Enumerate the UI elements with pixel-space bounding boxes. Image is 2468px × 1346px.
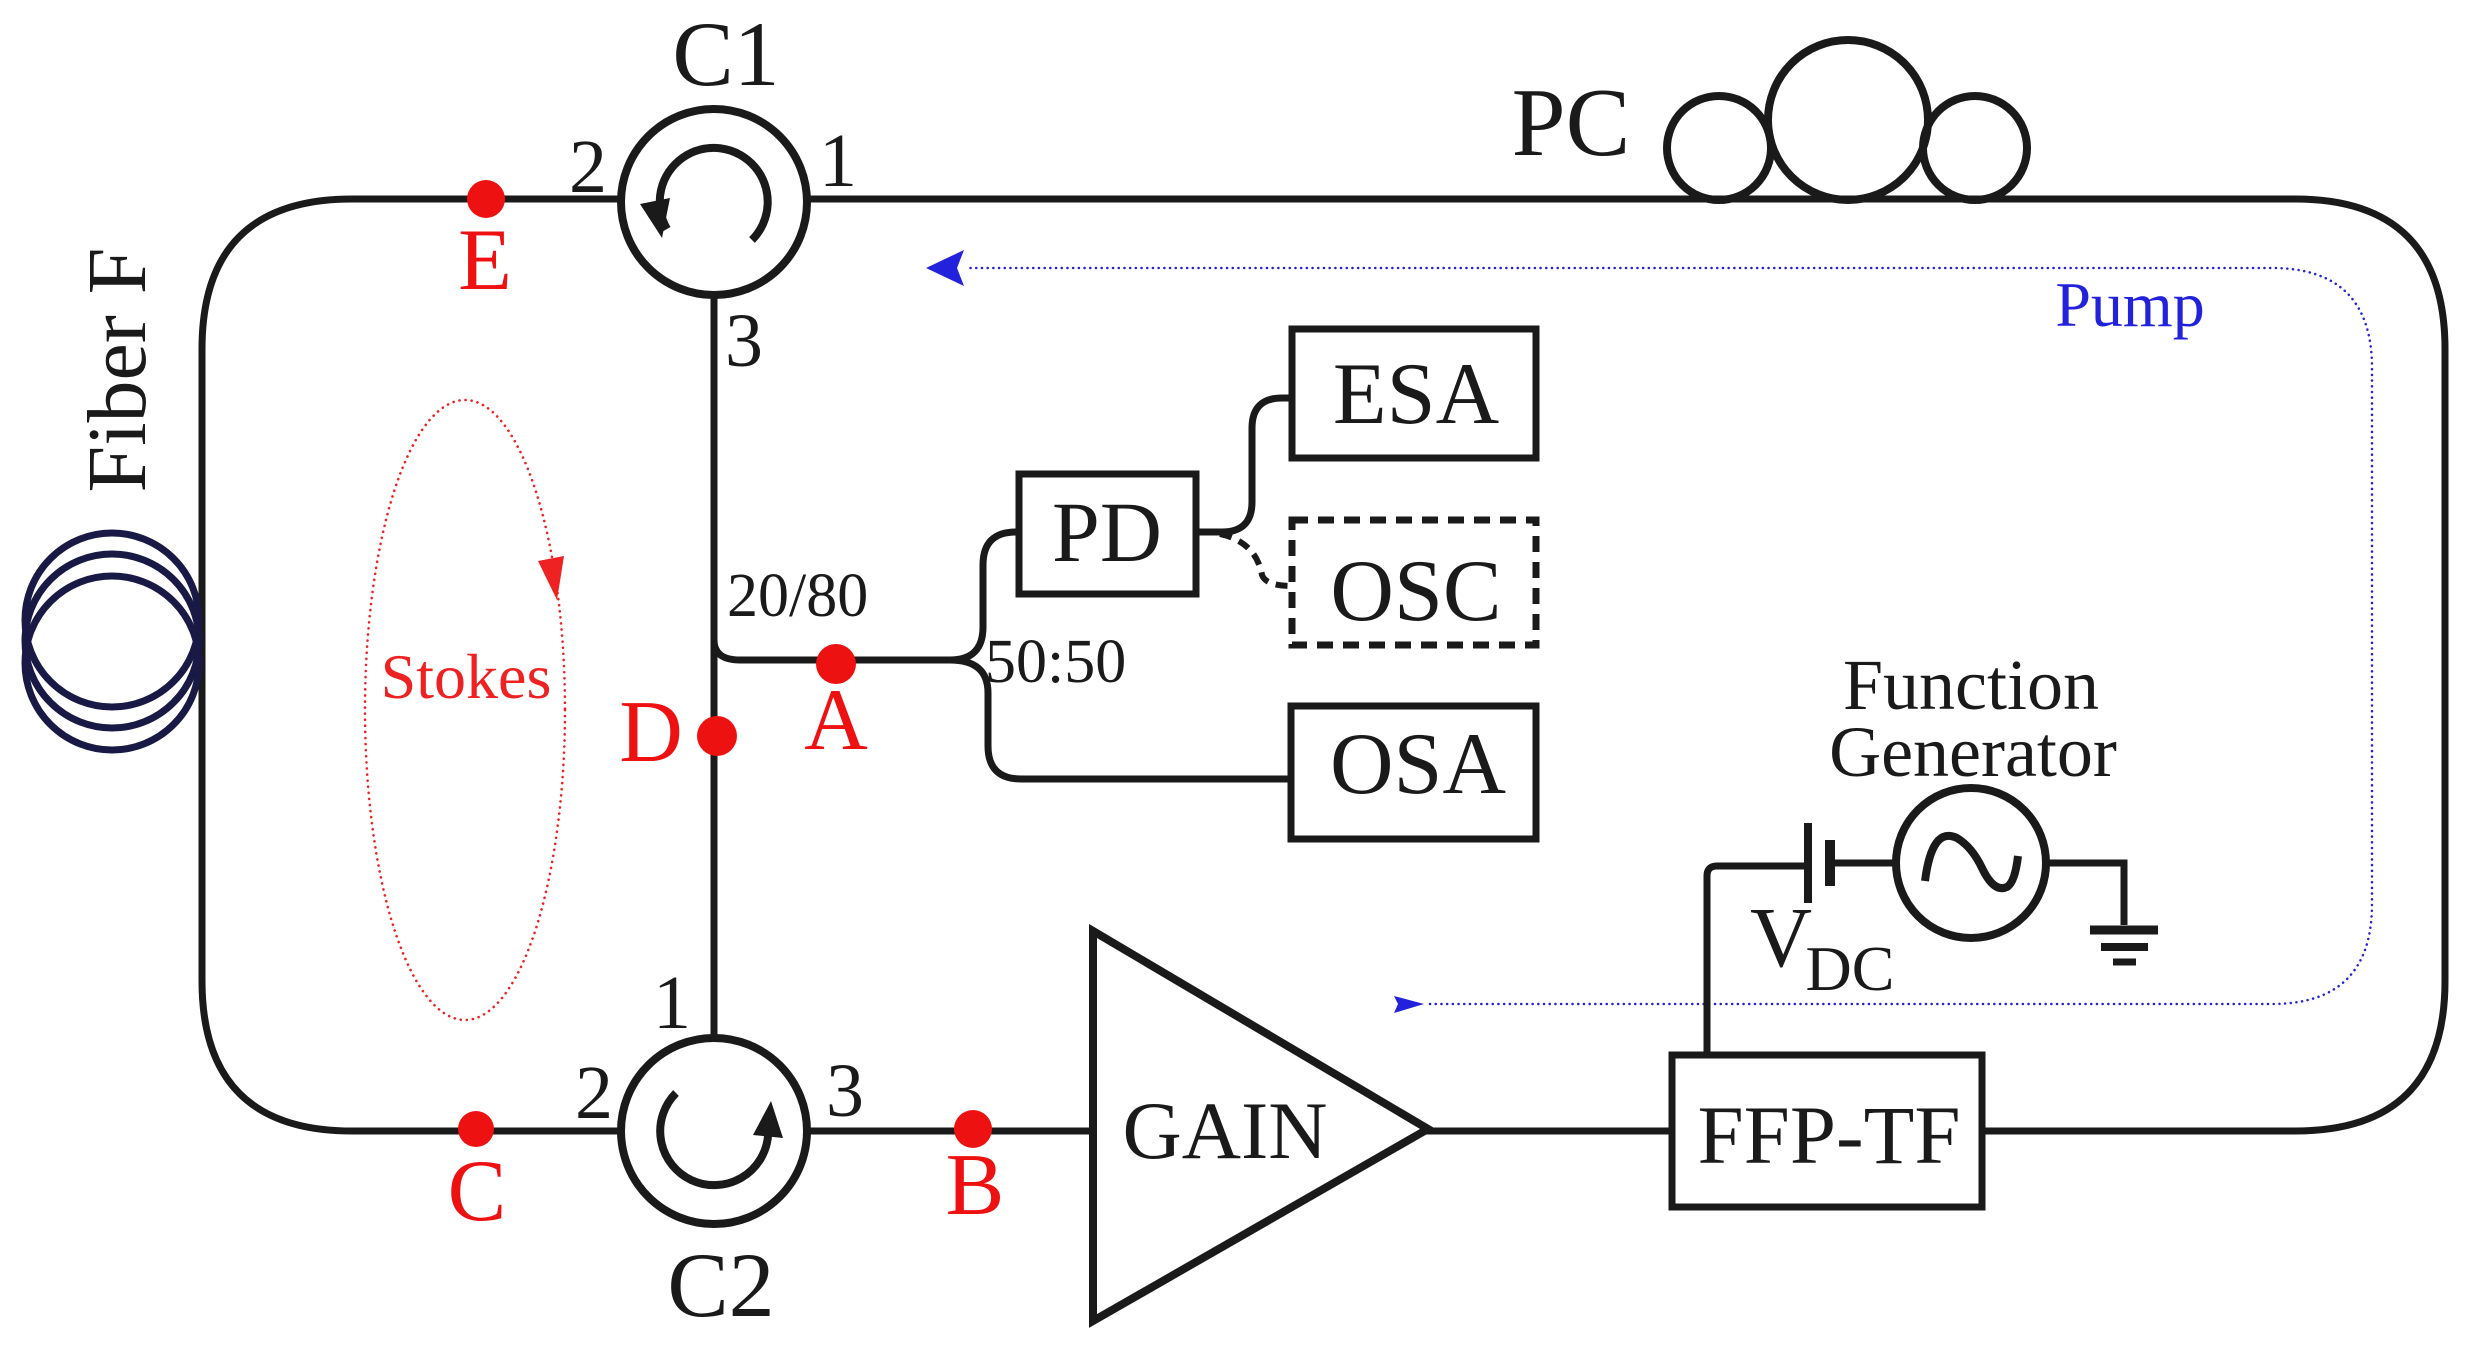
circulator C2	[621, 1038, 807, 1224]
Stokes dotted ellipse	[365, 400, 565, 1020]
svg-text:D: D	[619, 684, 683, 781]
svg-text:C2: C2	[667, 1234, 774, 1336]
polarization controller PC loops	[1667, 40, 2027, 200]
wire battery to generator	[1834, 860, 1896, 867]
svg-text:2: 2	[575, 1051, 613, 1135]
node A dot	[816, 644, 856, 684]
svg-text:1: 1	[653, 961, 691, 1045]
svg-text:OSC: OSC	[1330, 543, 1501, 640]
svg-text:V: V	[1750, 889, 1812, 985]
fiber coil (Fiber F)	[25, 533, 199, 750]
node E dot	[467, 180, 505, 218]
wire C1 port3 to C2 port1	[711, 202, 718, 1131]
circulator C1	[621, 109, 807, 295]
pump dashed path (blue)	[926, 250, 2372, 1013]
coupler 20/80 branch wire	[714, 640, 950, 660]
node C dot	[458, 1111, 494, 1147]
photodetector PD box	[1019, 474, 1196, 594]
pump arrow left (top)	[926, 250, 964, 286]
svg-text:OSA: OSA	[1330, 716, 1506, 813]
wire generator to ground	[2046, 863, 2124, 925]
svg-text:PD: PD	[1052, 484, 1162, 580]
wire PD to fork	[1196, 529, 1222, 536]
function generator wires	[1707, 866, 1804, 1055]
svg-text:B: B	[946, 1137, 1005, 1234]
svg-text:Stokes: Stokes	[381, 641, 552, 712]
svg-text:3: 3	[725, 299, 763, 383]
svg-text:Fiber F: Fiber F	[71, 247, 164, 492]
battery VDC long plate	[1804, 823, 1812, 903]
svg-text:GAIN: GAIN	[1123, 1085, 1328, 1176]
FFP-TF box	[1672, 1055, 1982, 1207]
amplifier GAIN triangle	[1093, 931, 1428, 1321]
svg-text:Generator: Generator	[1829, 712, 2117, 792]
node D dot	[697, 716, 737, 756]
svg-text:ESA: ESA	[1333, 346, 1499, 443]
splitter 50:50 fork upper branch to PD	[950, 532, 1019, 660]
svg-text:DC: DC	[1806, 933, 1895, 1004]
svg-text:C1: C1	[672, 3, 779, 105]
pump arrow right (bottom)	[1394, 996, 1424, 1013]
svg-text:3: 3	[826, 1049, 864, 1133]
svg-text:PC: PC	[1512, 69, 1631, 176]
svg-text:Pump: Pump	[2055, 269, 2204, 340]
splitter 50:50 fork lower branch to OSA	[950, 660, 1291, 779]
svg-text:A: A	[804, 672, 868, 769]
sine source circle	[1896, 788, 2046, 938]
svg-text:1: 1	[819, 119, 857, 203]
battery VDC short plate	[1825, 840, 1835, 886]
OSC dashed box	[1292, 520, 1536, 645]
svg-text:FFP-TF: FFP-TF	[1698, 1089, 1961, 1181]
ESA box	[1292, 329, 1536, 458]
dashed wire fork to OSC	[1220, 534, 1292, 586]
ground symbol	[2090, 930, 2158, 962]
node B dot	[954, 1110, 992, 1148]
svg-text:2: 2	[569, 125, 607, 209]
svg-text:E: E	[458, 212, 512, 309]
svg-text:C: C	[448, 1143, 507, 1240]
Stokes arrow	[538, 556, 564, 600]
fiber ring loop	[202, 199, 2445, 1131]
svg-text:50:50: 50:50	[985, 628, 1126, 696]
OSA box	[1291, 706, 1536, 839]
sine wave	[1925, 836, 2018, 888]
wire fork to ESA	[1222, 398, 1292, 532]
svg-text:20/80: 20/80	[727, 562, 868, 630]
